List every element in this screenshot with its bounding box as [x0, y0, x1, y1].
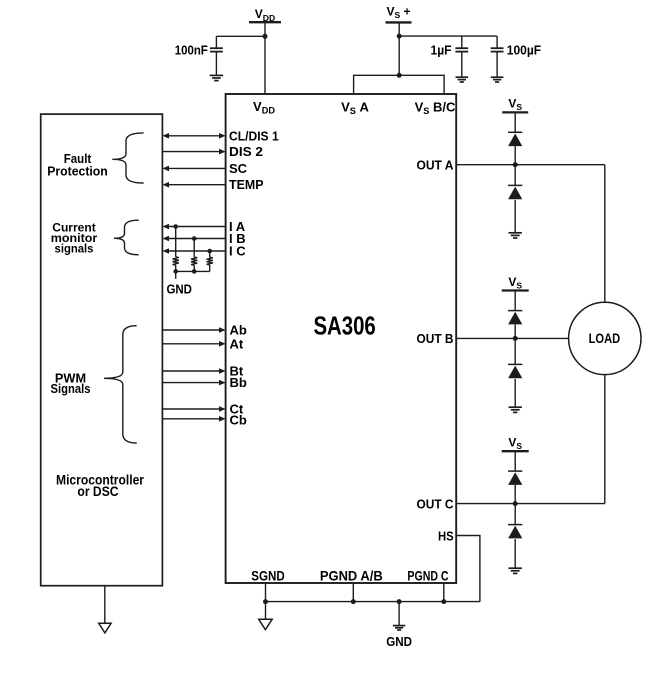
svg-text:LOAD: LOAD: [589, 331, 621, 346]
wire microcontroller to signal ground: [104, 586, 106, 624]
node I A / R1: [173, 224, 178, 229]
node SGND / rail: [263, 599, 268, 604]
svg-text:VS B/C: VS B/C: [415, 100, 456, 117]
ground earth below C1: [210, 74, 223, 76]
svg-text:GND: GND: [386, 634, 412, 649]
resistor R3: [207, 257, 213, 265]
wire R1 to gnd rail: [175, 265, 177, 271]
signal ground triangle (microcontroller): [99, 623, 111, 633]
node OUT A / diode column: [513, 162, 518, 167]
wire TEMP: [168, 184, 225, 186]
svg-text:Cb: Cb: [230, 413, 247, 428]
wire CL/DIS 1 (bidirectional): [168, 135, 219, 137]
svg-text:VS A: VS A: [341, 100, 369, 117]
wire VDD junction to capacitor C1: [216, 35, 265, 37]
svg-text:HS: HS: [438, 529, 454, 543]
wire D2 to ground: [514, 200, 516, 233]
capacitor C3 100uF: [496, 36, 498, 48]
wire R3 to gnd rail: [209, 265, 211, 271]
brace PWM signals group: [104, 326, 137, 443]
diode D1 (OUT A high side): [508, 131, 522, 133]
wire VS to diode D3: [514, 291, 516, 311]
diode D6 (OUT C low side): [508, 524, 522, 526]
svg-text:Protection: Protection: [47, 164, 108, 178]
svg-text:or DSC: or DSC: [77, 484, 118, 499]
wire I A to resistor R1: [175, 227, 177, 257]
wire VS+ rail down to bracket: [398, 22, 400, 75]
svg-text:OUT A: OUT A: [417, 158, 455, 173]
svg-text:GND: GND: [166, 281, 192, 296]
node I B / R2: [192, 236, 197, 241]
wire SGND stub: [265, 583, 267, 602]
wire Bb: [162, 382, 219, 384]
wire OUT C: [456, 503, 605, 505]
wire OUT A node to diode D2: [514, 165, 516, 186]
wire Ab: [162, 329, 219, 331]
wire R2 to gnd rail: [193, 265, 195, 271]
supply VS+ rail bar: [386, 21, 412, 23]
svg-text:TEMP: TEMP: [229, 177, 264, 192]
wire PGND A/B stub: [352, 583, 354, 602]
ground earth below C2: [456, 76, 469, 78]
svg-text:PGND C: PGND C: [407, 569, 448, 584]
svg-text:SA306: SA306: [313, 310, 375, 340]
wire OUT A: [456, 164, 605, 166]
brace current monitor group: [114, 220, 139, 255]
wire I C sense: [168, 250, 225, 252]
supply VS bar (column B): [502, 289, 529, 291]
svg-text:OUT C: OUT C: [417, 496, 455, 511]
diode D5 (OUT C high side): [508, 470, 522, 472]
load circle: [569, 302, 641, 374]
wire I B sense: [168, 238, 225, 240]
signal ground triangle (SGND): [259, 619, 273, 629]
wire gnd rail under resistors: [176, 270, 210, 272]
wire D1 to OUT A node: [514, 146, 516, 165]
wire VS to diode D5: [514, 451, 516, 471]
wire OUT B node to diode D4: [514, 338, 516, 364]
ground earth below D6: [509, 567, 522, 569]
node PGND A/B / rail: [351, 599, 356, 604]
capacitor C2 1uF: [461, 36, 463, 48]
svg-text:Signals: Signals: [51, 382, 91, 396]
svg-text:SC: SC: [229, 161, 248, 176]
wire I A sense: [168, 226, 225, 228]
ground earth below D4: [509, 406, 522, 408]
wire Bt: [162, 370, 219, 372]
wire Ct: [162, 408, 219, 410]
wire D5 to OUT C node: [514, 485, 516, 504]
wire VS+ junction to capacitors: [399, 35, 497, 37]
supply VDD rail bar: [249, 21, 281, 23]
node I C / R3: [207, 249, 212, 254]
svg-text:signals: signals: [55, 241, 94, 255]
node VS bracket junction: [397, 73, 402, 78]
node VS+ junction to decoupling caps: [397, 34, 402, 39]
wire load down to OUT C: [604, 375, 606, 504]
node rail R1: [173, 269, 178, 274]
ground earth below D2: [509, 232, 522, 234]
svg-text:SGND: SGND: [251, 569, 285, 584]
resistor R2: [191, 257, 197, 265]
wire VS to diode D1: [514, 112, 516, 132]
svg-text:1µF: 1µF: [431, 43, 452, 58]
svg-text:PGND A/B: PGND A/B: [320, 569, 383, 584]
svg-text:I C: I C: [229, 244, 246, 259]
wire VDD rail down to IC VDD pin: [264, 22, 266, 94]
wire D6 to ground: [514, 539, 516, 568]
wire I C to resistor R3: [209, 251, 211, 257]
wire OUT B: [456, 337, 568, 339]
brace fault protection group: [112, 133, 143, 183]
svg-text:Bb: Bb: [230, 375, 247, 390]
node VDD junction to C1: [263, 34, 268, 39]
node OUT C / diode column: [513, 501, 518, 506]
wire bracket VS to pins VS A and VS B/C: [354, 75, 445, 94]
wire D3 to OUT B node: [514, 324, 516, 338]
svg-text:At: At: [230, 336, 244, 351]
wire HS to ground rail: [456, 536, 480, 602]
ground earth below C3: [491, 76, 504, 78]
wire SC: [168, 167, 225, 169]
wire OUT A down to load: [604, 165, 606, 303]
svg-text:OUT B: OUT B: [417, 331, 454, 346]
node OUT B / diode column: [513, 336, 518, 341]
diode D3 (OUT B high side): [508, 310, 522, 312]
wire At: [162, 343, 219, 345]
node PGND C / rail: [441, 599, 446, 604]
svg-text:100nF: 100nF: [175, 43, 208, 58]
microcontroller box: [41, 114, 163, 586]
svg-text:100µF: 100µF: [507, 43, 541, 58]
svg-text:CL/DIS 1: CL/DIS 1: [229, 128, 279, 143]
wire D4 to ground: [514, 379, 516, 407]
wire OUT C node to diode D6: [514, 504, 516, 525]
diode D4 (OUT B low side): [508, 363, 522, 365]
supply VS bar (column C): [502, 450, 529, 452]
capacitor C1 100nF: [215, 36, 217, 48]
wire DIS 2: [162, 151, 219, 153]
ground earth (system GND): [393, 625, 405, 627]
node rail R2: [192, 269, 197, 274]
node GND tap / rail: [397, 599, 402, 604]
svg-text:DIS 2: DIS 2: [229, 144, 263, 159]
wire SGND to signal ground: [265, 602, 267, 620]
op-amp IC U1 SA306 body: [226, 94, 457, 583]
wire GND tap: [398, 602, 400, 626]
diode D2 (OUT A low side): [508, 184, 522, 186]
resistor R1: [173, 257, 179, 265]
wire bottom ground rail: [266, 601, 480, 603]
wire Cb: [162, 418, 219, 420]
supply VS bar (column A): [502, 111, 528, 113]
wire GND stub: [175, 271, 177, 278]
wire I B to resistor R2: [193, 239, 195, 258]
wire PGND C stub: [443, 583, 445, 602]
svg-text:Ab: Ab: [230, 323, 247, 338]
